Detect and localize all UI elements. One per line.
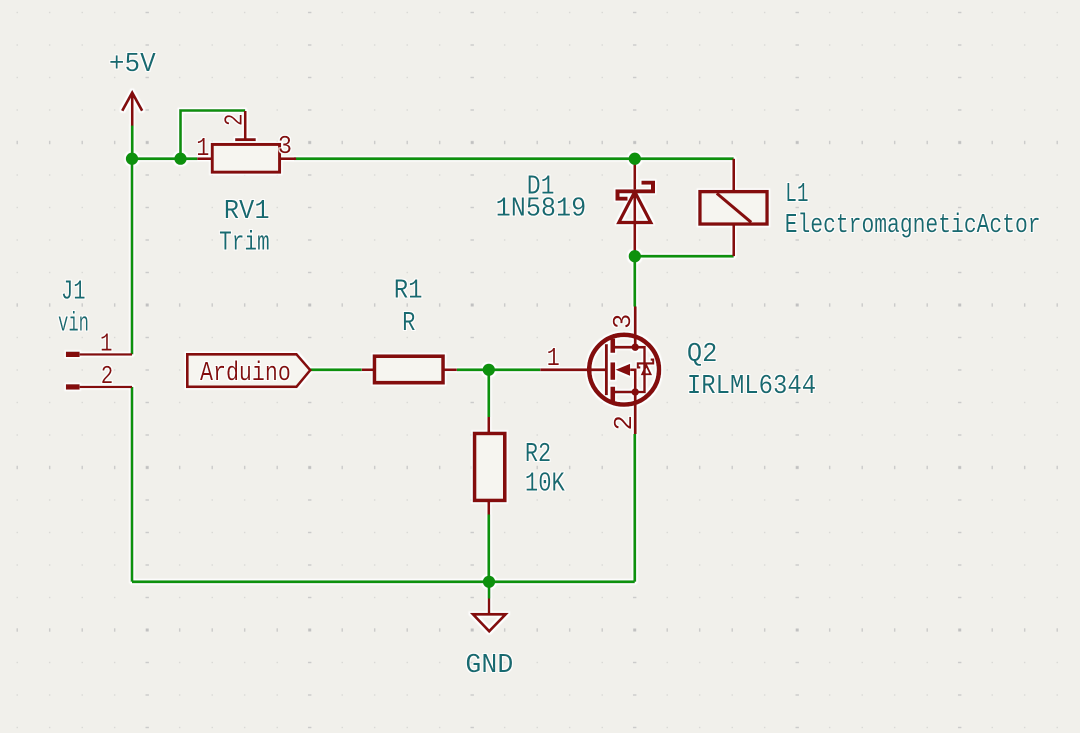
potentiometer RV1 xyxy=(197,111,296,172)
Q2 source dot xyxy=(631,388,639,396)
wire left vertical J1 pin2 down xyxy=(131,387,134,582)
Q2 bulk arrow head xyxy=(616,364,631,376)
svg-text:2: 2 xyxy=(220,114,250,127)
power +5V symbol xyxy=(122,93,142,126)
wire bottom horizontal xyxy=(132,580,635,583)
svg-text:1: 1 xyxy=(100,329,113,359)
svg-text:2: 2 xyxy=(101,361,114,391)
wire main top horizontal net xyxy=(132,157,734,160)
junction at +5V / J1 pin1 xyxy=(126,153,138,165)
svg-text:vin: vin xyxy=(58,308,89,339)
svg-text:J1: J1 xyxy=(61,277,86,308)
wire D1 bottom junction to Q2 drain xyxy=(633,256,636,306)
wire left vertical J1 pin1 xyxy=(131,159,134,355)
svg-text:1N5819: 1N5819 xyxy=(496,194,587,225)
junction at D1 top xyxy=(629,153,641,165)
wire D1 junction to relay bottom xyxy=(635,255,734,258)
svg-text:L1: L1 xyxy=(785,179,808,210)
svg-text:Q2: Q2 xyxy=(687,339,718,370)
wire +5V stem to junction xyxy=(131,125,134,158)
ground symbol xyxy=(473,599,506,632)
wire Q2 source to bottom xyxy=(633,434,636,582)
wire RV1 pin2 bypass xyxy=(181,111,246,159)
svg-text:ElectromagneticActor: ElectromagneticActor xyxy=(785,210,1041,241)
resistor R2 xyxy=(475,417,505,515)
wire mid horizontal Arduino to gate xyxy=(310,368,540,371)
svg-text:1: 1 xyxy=(196,133,209,163)
svg-text:IRLML6344: IRLML6344 xyxy=(687,371,816,402)
svg-text:R1: R1 xyxy=(394,276,423,307)
diode D1 Schottky xyxy=(618,159,654,252)
junction at D1 bottom xyxy=(629,250,641,262)
svg-text:1: 1 xyxy=(547,343,560,373)
svg-text:10K: 10K xyxy=(525,468,565,499)
global label Arduino box xyxy=(187,354,310,387)
svg-text:+5V: +5V xyxy=(109,49,156,80)
svg-text:R: R xyxy=(402,308,415,339)
svg-text:R2: R2 xyxy=(525,439,551,470)
svg-text:3: 3 xyxy=(278,131,292,161)
transistor Q2 N-MOSFET xyxy=(540,307,659,435)
wire GND stub xyxy=(488,582,491,599)
relay coil L1 xyxy=(700,159,767,257)
svg-text:GND: GND xyxy=(465,650,513,681)
svg-text:Arduino: Arduino xyxy=(200,358,291,389)
svg-text:RV1: RV1 xyxy=(224,196,270,227)
svg-text:2: 2 xyxy=(609,415,639,431)
resistor R1 xyxy=(362,356,457,383)
junction at bottom GND xyxy=(483,576,495,588)
connector J1 pins xyxy=(66,352,132,390)
junction at RV1 bypass xyxy=(174,153,186,165)
wire R2 bottom xyxy=(487,515,490,582)
svg-text:Trim: Trim xyxy=(219,228,270,259)
junction at R1/R2/gate xyxy=(483,364,495,376)
Q2 drain dot xyxy=(631,343,639,351)
wire R2 top xyxy=(487,370,490,417)
svg-text:3: 3 xyxy=(608,314,638,329)
